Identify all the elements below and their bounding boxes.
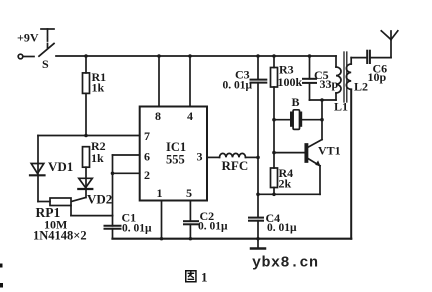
label B <box>292 95 300 109</box>
svg-text:S: S <box>42 57 49 71</box>
crystal B <box>274 110 322 130</box>
node rail-C2 <box>189 237 192 240</box>
svg-text:VD2: VD2 <box>87 192 112 207</box>
pin labels <box>144 109 203 200</box>
node emitter-C4 <box>256 193 260 197</box>
label VD2 <box>87 192 112 207</box>
capacitor C2 <box>184 201 198 239</box>
node C5-collector <box>320 98 324 102</box>
diode VD1 <box>30 136 45 202</box>
node R3-crystal <box>272 118 276 122</box>
svg-text:5: 5 <box>186 186 192 200</box>
battery +9V label <box>17 31 39 45</box>
svg-text:8: 8 <box>155 109 161 123</box>
svg-text:555: 555 <box>166 153 185 167</box>
label C6 10p <box>368 62 388 85</box>
node rail-C4 <box>256 237 259 240</box>
svg-text:L2: L2 <box>354 80 368 94</box>
label C4 0.01u <box>266 211 298 234</box>
antenna <box>381 31 398 58</box>
inductor L2 <box>346 58 351 239</box>
label C2 0.01u <box>198 209 228 233</box>
svg-text:1: 1 <box>157 186 163 200</box>
label L2 <box>354 80 368 94</box>
capacitor C3 <box>251 56 267 157</box>
wire bottom ground rail <box>113 238 352 240</box>
transistor VT1 <box>258 100 322 194</box>
svg-text:0. 01μ: 0. 01μ <box>122 223 152 235</box>
wire pin7 line <box>38 135 140 137</box>
node rail-pin1 <box>160 237 163 240</box>
svg-text:0. 01μ: 0. 01μ <box>223 80 253 92</box>
scan mark left edge 2 <box>0 283 3 288</box>
diode VD2 <box>72 167 93 201</box>
label RFC <box>222 158 249 173</box>
svg-text:0. 01μ: 0. 01μ <box>198 221 228 233</box>
node R4-emitter <box>272 193 276 197</box>
svg-text:2: 2 <box>144 168 150 182</box>
svg-text:1k: 1k <box>91 151 104 165</box>
svg-text:ybx8.cn: ybx8.cn <box>252 255 319 272</box>
resistor R1 <box>83 56 90 136</box>
node rail-C3 <box>256 54 260 58</box>
capacitor C6 <box>351 51 391 63</box>
svg-text:7: 7 <box>144 129 150 143</box>
transformer core <box>344 52 347 102</box>
label R2 1k <box>91 139 106 165</box>
svg-text:VT1: VT1 <box>318 144 341 158</box>
caption 图 1 <box>186 270 208 285</box>
svg-text:1: 1 <box>201 270 208 285</box>
svg-text:L1: L1 <box>334 100 348 114</box>
label C5 33p <box>314 68 339 91</box>
pin 4 <box>189 56 191 107</box>
capacitor C4 <box>249 218 263 239</box>
svg-text:1N4148×2: 1N4148×2 <box>33 229 87 243</box>
svg-text:1k: 1k <box>92 81 105 95</box>
node pin7-R1R2 <box>84 134 88 138</box>
node rail-pin4 <box>188 54 192 58</box>
label VD1 <box>48 159 73 174</box>
battery symbol <box>41 29 54 49</box>
svg-text:10p: 10p <box>368 70 387 84</box>
node rail-R3 <box>272 54 276 58</box>
label RP1 10M 1N4148x2 <box>33 205 87 243</box>
potentiometer RP1 <box>38 198 113 216</box>
switch S <box>18 44 54 59</box>
node pin2 junction <box>111 172 115 176</box>
label L1 <box>334 100 348 114</box>
label R1 1k <box>92 70 107 95</box>
wire pin6-pin2 branch <box>113 155 140 216</box>
label VT1 <box>318 144 341 158</box>
label C3 0.01u <box>223 68 253 92</box>
inductor RFC <box>207 153 258 157</box>
switch label S <box>42 57 49 71</box>
wire C3 branch lower <box>257 157 259 217</box>
node crystal-collector <box>320 118 324 122</box>
svg-text:3: 3 <box>197 150 203 164</box>
ground <box>251 239 265 249</box>
capacitor C1 <box>105 216 121 239</box>
node rail-pin8 <box>157 54 161 58</box>
pin 8 <box>158 56 160 107</box>
svg-text:100k: 100k <box>278 75 303 89</box>
label R4 2k <box>279 166 294 191</box>
svg-text:B: B <box>292 95 300 109</box>
inductor L1 <box>336 56 341 100</box>
svg-text:6: 6 <box>144 150 150 164</box>
svg-text:0. 01μ: 0. 01μ <box>267 222 297 234</box>
op-amp U1 555 IC box <box>140 107 207 201</box>
resistor R4 <box>271 168 278 194</box>
svg-text:VD1: VD1 <box>48 159 73 174</box>
node rail-R1 <box>84 54 88 58</box>
svg-text:RFC: RFC <box>222 158 249 173</box>
resistor R3 <box>271 56 278 168</box>
wire pin1 to ground rail <box>161 201 163 239</box>
svg-text:2k: 2k <box>279 177 292 191</box>
svg-text:33p: 33p <box>320 77 339 91</box>
node R3-base <box>272 151 276 155</box>
label C1 0.01u <box>122 211 153 235</box>
node rail-C5 <box>308 54 312 58</box>
scan mark left edge 1 <box>0 264 3 268</box>
capacitor C5 <box>303 56 336 100</box>
resistor R2 <box>83 147 90 168</box>
wire top power rail <box>56 55 336 57</box>
svg-text:+9V: +9V <box>17 31 39 45</box>
svg-text:4: 4 <box>187 109 193 123</box>
label IC1 555 <box>166 140 186 167</box>
node RFC-C3 <box>256 156 260 160</box>
label R3 100k <box>278 63 303 90</box>
